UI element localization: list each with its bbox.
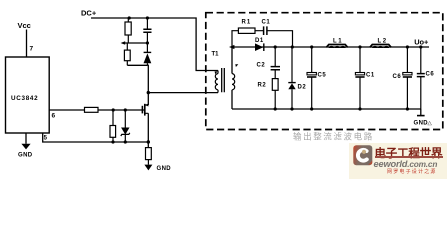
capacitor C6b — [420, 47, 422, 73]
ground under IC — [25, 133, 27, 144]
transformer T1 primary — [217, 71, 219, 74]
resistor gate pulldown — [112, 110, 114, 126]
ground output — [420, 109, 422, 115]
wire DC+ rail — [91, 18, 218, 71]
svg-text:C1: C1 — [366, 73, 375, 79]
svg-text:GND: GND — [18, 153, 33, 159]
svg-text:输出整流滤波电路: 输出整流滤波电路 — [293, 132, 374, 142]
transformer primary polarity mark — [215, 71, 218, 74]
svg-text:△: △ — [428, 120, 433, 126]
svg-text:6: 6 — [52, 113, 56, 120]
svg-text:GND: GND — [157, 166, 172, 172]
wire drain to transformer primary — [148, 92, 218, 94]
zener diode gate clamp — [124, 110, 126, 128]
svg-text:UC3842: UC3842 — [11, 95, 38, 102]
diode D2 — [291, 47, 293, 83]
capacitor C6 electrolytic — [406, 47, 408, 72]
node junction main C6a — [406, 45, 409, 48]
node junction rail C4 — [358, 107, 361, 110]
svg-text:R2: R2 — [258, 83, 267, 89]
svg-text:C6: C6 — [393, 74, 402, 80]
node junction main L1 C4 — [358, 45, 361, 48]
transformer T1 core — [222, 68, 225, 92]
svg-text:DC+: DC+ — [81, 9, 97, 18]
svg-text:Vcc: Vcc — [18, 21, 31, 30]
svg-text:C1: C1 — [262, 20, 271, 26]
wire Vcc to pin 7 — [26, 30, 28, 58]
resistor R1 — [238, 28, 255, 33]
diode clamp — [146, 43, 148, 52]
wire pin 6 to gate resistor — [49, 109, 84, 111]
resistor sense — [146, 148, 152, 160]
svg-text:C5: C5 — [318, 73, 327, 79]
ground at source — [144, 165, 152, 171]
capacitor C2 — [274, 47, 276, 66]
svg-text:L2: L2 — [378, 39, 388, 45]
watermark logo icon — [353, 145, 373, 166]
node junction rail D2 — [290, 107, 293, 110]
node junction branch D2 — [291, 45, 294, 48]
op-amp U1 UC3842 box — [6, 57, 50, 133]
wire pin 5 stub and bottom rail — [43, 133, 149, 142]
wire resistor to gate — [98, 109, 144, 111]
transistor Q1 MOSFET — [141, 106, 143, 114]
node junction main C6b — [419, 45, 422, 48]
svg-text:5: 5 — [44, 136, 48, 142]
resistor gate series — [85, 107, 99, 112]
svg-text:L1: L1 — [333, 39, 343, 45]
inductor L2 — [370, 45, 391, 48]
node junction gate wire 2 — [124, 108, 127, 111]
node junction secondary main arrow — [229, 45, 234, 49]
node junction rail source — [147, 140, 150, 143]
watermark background — [349, 143, 447, 179]
wire clamp bottom — [127, 64, 147, 66]
node junction rail R — [111, 140, 114, 143]
node junction rail snubber cap — [146, 16, 149, 19]
capacitor C4 electrolytic — [359, 47, 361, 72]
watermark slogan — [387, 168, 437, 175]
svg-text:R1: R1 — [242, 20, 252, 26]
watermark title 电子工程世界 — [375, 145, 445, 161]
node junction gate wire 1 — [112, 108, 115, 111]
svg-text:GND: GND — [414, 121, 429, 127]
diode D1 — [255, 43, 263, 51]
resistor clamp — [126, 43, 128, 50]
wire clamp top with arrow to Vcc — [123, 42, 148, 44]
svg-text:Uo+: Uo+ — [414, 38, 429, 47]
capacitor snubber — [146, 18, 148, 29]
node junction rail C2R2 — [274, 107, 277, 110]
node junction rail C5 — [310, 107, 313, 110]
node junction D1 C2 — [274, 45, 277, 48]
wire clamp to drain node — [146, 65, 149, 105]
svg-text:D1: D1 — [255, 38, 264, 44]
resistor R2 — [272, 79, 278, 91]
node junction rail startup resistor — [128, 16, 131, 19]
resistor startup — [127, 18, 129, 22]
wire output bottom rail — [232, 108, 421, 110]
capacitor C1 — [264, 26, 267, 35]
transformer T1 secondary — [231, 47, 233, 74]
svg-text:D2: D2 — [298, 85, 307, 91]
svg-text:T1: T1 — [212, 52, 220, 58]
node junction rail zener — [124, 140, 127, 143]
svg-text:7: 7 — [30, 46, 34, 53]
dashed box output section — [206, 13, 443, 130]
capacitor C5 electrolytic — [311, 47, 313, 72]
node junction main C5 — [310, 45, 313, 48]
watermark url eeworld.com.cn — [374, 159, 438, 169]
node junction drain primary — [147, 91, 150, 94]
transformer secondary polarity mark — [235, 64, 238, 67]
node junction rail C6a — [406, 107, 409, 110]
svg-text:C6: C6 — [426, 72, 435, 78]
inductor L1 — [326, 45, 347, 48]
wire output main line — [232, 46, 429, 48]
svg-text:C2: C2 — [257, 63, 266, 69]
node junction clamp cap — [146, 41, 149, 44]
wire R1 C1 branch — [232, 31, 293, 47]
